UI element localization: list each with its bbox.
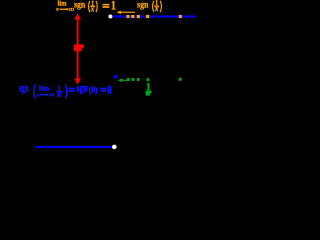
not-equal marker on red arrow — [74, 44, 84, 51]
red vertical double-headed arrow — [74, 13, 81, 84]
formula: sgn(lim_{x→∞} 1/x) = sgn(0) = 0 (blue, middle) — [19, 81, 112, 99]
formula: lim_{x→∞} sgn(1/x) = 1 (orange, top left) — [55, 0, 116, 13]
svg-text:x: x — [90, 4, 95, 13]
top number line segment (blue) — [112, 15, 196, 17]
point sgn(0)=0 (blue square) — [114, 75, 117, 78]
svg-text:0: 0 — [107, 83, 112, 97]
svg-text:lim: lim — [58, 0, 67, 8]
svg-text:x: x — [36, 92, 40, 98]
svg-text:lim: lim — [39, 86, 49, 93]
open point 0 on top line (white) — [108, 15, 112, 19]
point 0 at right end of bottom line (white) — [112, 145, 117, 150]
image points sgn(1/x) (green squares) — [127, 78, 182, 81]
svg-text:sgn: sgn — [137, 0, 149, 10]
svg-text:1: 1 — [111, 0, 116, 12]
not-equal marker (green) — [146, 91, 152, 96]
sequence points 1/x on top line (orange) — [126, 15, 181, 18]
svg-text:(0): (0) — [89, 85, 98, 96]
svg-text:x: x — [55, 7, 59, 13]
svg-text:x: x — [154, 4, 159, 13]
label sgn(1/x) above the sequence points (orange) — [137, 0, 161, 13]
svg-text:x: x — [55, 90, 61, 99]
svg-text:sgn: sgn — [74, 0, 86, 10]
arrow: sequence tends left to 0 (orange) — [117, 11, 135, 15]
svg-text:sgn: sgn — [19, 81, 29, 95]
arrow: image values tend left (green) — [118, 78, 129, 82]
svg-text:sgn: sgn — [76, 81, 88, 95]
bottom number line segment (blue) — [35, 146, 113, 148]
